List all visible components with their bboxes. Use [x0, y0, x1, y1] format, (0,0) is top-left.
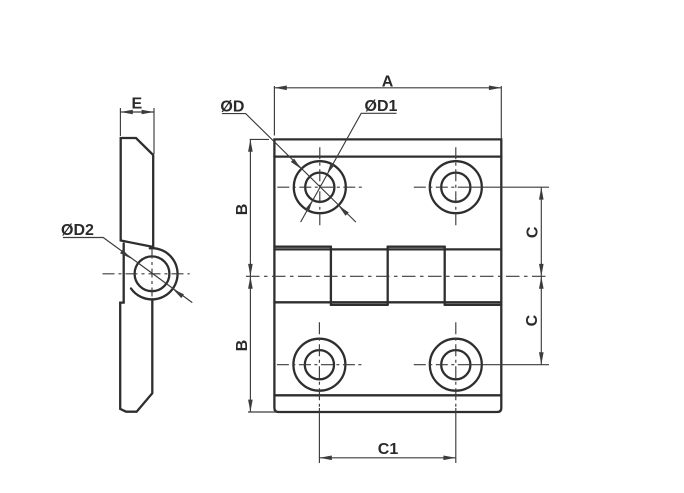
side view: hinge leaf profile (upper leaf) [121, 138, 154, 247]
dimension E extension lines [120, 108, 154, 154]
svg-text:A: A [382, 73, 394, 90]
hole TL: inner hole circle [305, 173, 334, 202]
dimension A extension lines [274, 86, 501, 139]
front view: plate outline [274, 139, 501, 412]
hole BR: inner hole circle [441, 350, 470, 379]
hole BL: counterbore outer circle [293, 339, 345, 391]
knuckle band: barrel bottom line [274, 301, 501, 303]
side view: barrel outer arc [131, 248, 178, 299]
dimension C upper line [540, 187, 542, 276]
hole TL: counterbore outer circle [294, 161, 346, 213]
dimension C1 line [319, 457, 455, 459]
hole BR: vertical centerline extended down [455, 322, 457, 408]
svg-text:ØD: ØD [220, 98, 244, 115]
svg-text:B: B [234, 204, 251, 216]
hole TL: vertical centerline [319, 147, 321, 227]
dimension B lower line [249, 276, 251, 412]
dimension B upper line [249, 139, 251, 276]
hole TR: counterbore outer circle [430, 161, 482, 213]
hole TR: horizontal centerline extended right [414, 186, 468, 188]
svg-text:C: C [524, 314, 541, 326]
hole BL: horizontal centerline [277, 364, 362, 366]
svg-text:ØD2: ØD2 [61, 222, 94, 239]
hole TR: inner hole circle [441, 173, 470, 202]
dimension E line [120, 111, 154, 113]
knuckle band: upper leaf knuckle top edges [274, 246, 444, 248]
side view: pin hole inner circle [135, 256, 170, 291]
hole TL: horizontal centerline [277, 186, 362, 188]
svg-text:ØD1: ØD1 [365, 98, 398, 115]
side view: barrel vertical centerline [151, 250, 153, 300]
hole BR: counterbore outer circle [430, 339, 482, 391]
hole BL: inner hole circle [305, 350, 334, 379]
svg-text:C1: C1 [378, 441, 399, 458]
side view: barrel horizontal centerline [103, 273, 190, 275]
hole BL: vertical centerline extended down [318, 322, 320, 408]
hole BR: horizontal centerline extended right [414, 364, 468, 366]
side view: leaf fold line into barrel [121, 241, 153, 247]
hinge pin centerline [246, 275, 548, 277]
dimension leader D2 [63, 238, 192, 303]
dimension leader D1 (hole) [301, 113, 397, 222]
svg-text:C: C [525, 226, 542, 238]
knuckle band: barrel top line [274, 248, 501, 250]
dimension B extension lines [248, 139, 277, 412]
knuckle division lines [330, 247, 332, 305]
svg-text:E: E [131, 95, 142, 112]
front view: bottom edge inner line [274, 394, 501, 396]
dimension A line [274, 87, 501, 89]
knuckle band: lower leaf knuckle bottom edges [331, 304, 501, 306]
front view: top edge inner line [274, 155, 501, 157]
hole TR: vertical centerline [455, 147, 457, 227]
dimension leader D (counterbore) [222, 114, 356, 223]
side view: lower leaf profile [120, 244, 152, 412]
svg-text:B: B [234, 340, 251, 352]
dimension C lower line [540, 276, 542, 364]
